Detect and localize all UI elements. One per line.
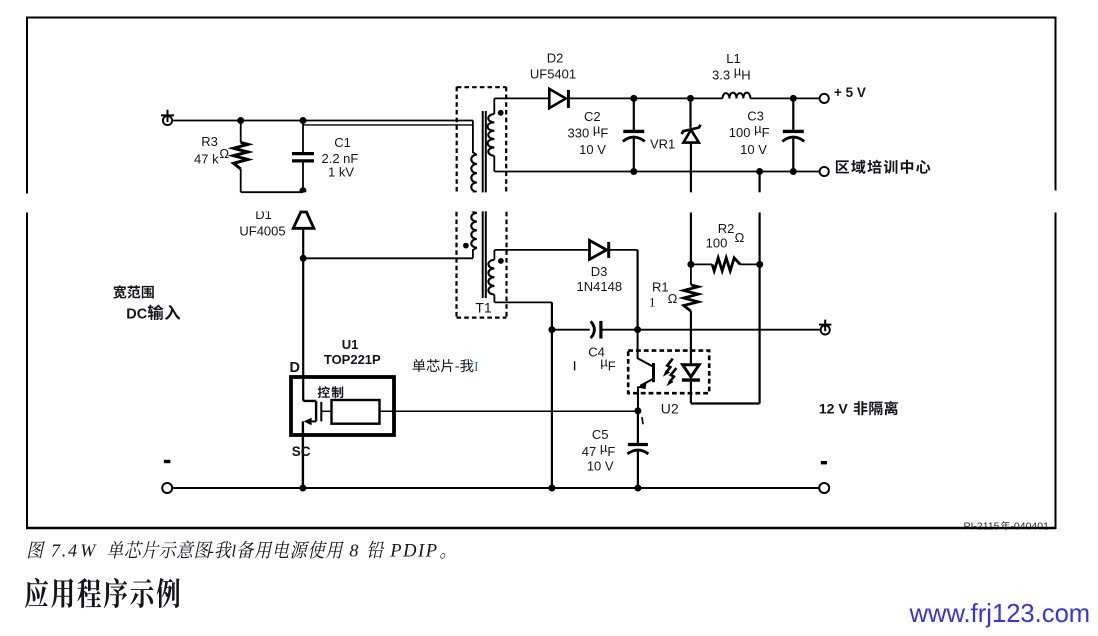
- inductor L1: [723, 93, 751, 99]
- transformer core upper: [483, 111, 486, 192]
- svg-text:1 kV: 1 kV: [328, 165, 354, 180]
- wire return down to seam: [758, 172, 760, 193]
- svg-text:47 µF: 47 µF: [582, 440, 616, 459]
- svg-text:8: 8: [349, 540, 358, 560]
- svg-text:10 V: 10 V: [579, 142, 606, 157]
- bias 12V phase dot: [498, 258, 504, 264]
- svg-text:100: 100: [706, 235, 728, 250]
- svg-text:www.frj123.com: www.frj123.com: [909, 600, 1091, 628]
- svg-text:Ω: Ω: [735, 230, 745, 245]
- svg-text:+ 5 V: + 5 V: [834, 85, 866, 100]
- svg-text:12 V: 12 V: [819, 401, 848, 417]
- control block rectangle: [332, 400, 380, 424]
- wire top rail input: [172, 120, 473, 122]
- node C1 top: [300, 117, 307, 124]
- minus mark left: [164, 460, 171, 463]
- svg-text:3.3 µH: 3.3 µH: [712, 64, 751, 83]
- node C2 bottom: [630, 168, 637, 175]
- node C3 top: [790, 95, 797, 102]
- svg-text:10 V: 10 V: [740, 142, 767, 157]
- svg-text:R3: R3: [201, 134, 218, 149]
- diode D3: [590, 240, 607, 259]
- transformer core lower: [483, 211, 486, 298]
- wire secondary to D2: [494, 97, 549, 99]
- wire LED cathode link: [691, 402, 760, 404]
- diode D1 (top clipped at seam): [293, 212, 314, 228]
- svg-text:47 k: 47 k: [194, 152, 219, 167]
- wire C4 rail left: [552, 329, 590, 331]
- wire 12V winding bottom: [495, 301, 552, 303]
- svg-text:330 µF: 330 µF: [568, 122, 609, 141]
- node C1 bottom (cut by seam): [300, 187, 307, 194]
- wire source column: [302, 421, 304, 488]
- svg-text:1: 1: [649, 295, 656, 310]
- heading 应用程序示例: [25, 578, 180, 608]
- label 单芯片-我I: [413, 359, 474, 372]
- node source-rail: [299, 485, 306, 492]
- opto emitter wire: [640, 379, 652, 385]
- svg-text:DC: DC: [126, 306, 147, 322]
- node control-emitter: [634, 407, 641, 414]
- svg-text:TOP221P: TOP221P: [324, 352, 381, 367]
- zener VR1: [689, 98, 691, 127]
- label D1 (half cut): [255, 207, 272, 222]
- border frame left (split at image seam): [26, 17, 28, 530]
- transistor Q MOSFET channel: [303, 401, 316, 422]
- svg-text:T1: T1: [475, 300, 492, 316]
- op-amp U1 TOPSwitch box: [291, 377, 394, 435]
- svg-text:U1: U1: [342, 337, 359, 352]
- capacitor C2: [633, 98, 635, 129]
- bias 12V winding: [493, 250, 495, 260]
- wire top rail double-line artifact: [303, 124, 473, 126]
- svg-text:l: l: [231, 541, 236, 560]
- wire bottom rail: [172, 487, 819, 489]
- border frame bottom: [26, 527, 1056, 530]
- caption figure text: [28, 541, 45, 558]
- svg-text:Ω: Ω: [668, 291, 678, 306]
- resistor R1: [690, 264, 692, 284]
- svg-text:100 µF: 100 µF: [729, 121, 770, 140]
- svg-text:D: D: [290, 360, 300, 376]
- svg-text:-: -: [208, 541, 214, 560]
- capacitor C5: [637, 411, 639, 443]
- value C4 mark: [574, 361, 576, 370]
- wire 5V return rail: [494, 171, 819, 173]
- primary winding lower (cut at seam): [471, 204, 477, 248]
- wire clamp rail: [241, 191, 304, 193]
- node VR1 top: [687, 95, 694, 102]
- node drain junction: [300, 255, 307, 262]
- svg-text:D2: D2: [547, 51, 564, 66]
- svg-text:W: W: [80, 540, 97, 560]
- capacitor C1: [302, 121, 304, 153]
- input + terminal: [163, 116, 172, 125]
- label 宽范围: [113, 285, 154, 299]
- node R2 right: [756, 261, 763, 268]
- secondary 5V winding: [493, 98, 495, 114]
- label RTN 区域培训中心: [836, 160, 931, 174]
- svg-text:VR1: VR1: [650, 136, 675, 151]
- node C3 bottom: [790, 168, 797, 175]
- diode D2: [549, 89, 566, 108]
- transformer T1 dashed box upper (cut at seam): [457, 87, 507, 192]
- capacitor C3: [792, 98, 794, 129]
- svg-text:R2: R2: [718, 221, 735, 236]
- wire return column lower: [758, 213, 760, 404]
- transformer T1 dashed box lower (cut at seam): [457, 212, 507, 318]
- wire drain to transformer: [303, 257, 473, 259]
- svg-text:1N4148: 1N4148: [577, 279, 623, 294]
- resistor R2: [691, 263, 712, 265]
- minus mark right: [821, 461, 827, 464]
- opto LED: [683, 365, 700, 377]
- transistor gate bar: [320, 402, 322, 422]
- terminal +5V: [820, 94, 829, 103]
- capacitor C4: [591, 321, 595, 338]
- optocoupler U2 dashed box: [628, 351, 709, 394]
- node D3 bottom: [634, 326, 641, 333]
- wire D1-drain column: [302, 228, 304, 401]
- svg-text:R1: R1: [652, 280, 669, 295]
- wire control pin line: [380, 410, 638, 412]
- wire primary top lead: [473, 121, 477, 155]
- node C5-rail: [634, 485, 641, 492]
- node return-down: [756, 168, 763, 175]
- terminal bottom left: [162, 483, 172, 493]
- wire 5V rail: [568, 97, 819, 99]
- wire D3 to C4 node: [609, 249, 638, 251]
- opto light arrow 2: [669, 368, 676, 383]
- svg-text:Ω: Ω: [219, 146, 229, 161]
- node R3 top: [237, 117, 244, 124]
- svg-text:UF5401: UF5401: [530, 66, 576, 81]
- node C4 left: [548, 326, 555, 333]
- svg-text:C1: C1: [334, 135, 351, 150]
- svg-text:PDIP: PDIP: [389, 541, 439, 561]
- wire 12V winding to D3: [495, 249, 590, 251]
- wire gate link: [321, 410, 330, 412]
- node C2 top: [630, 95, 637, 102]
- border frame top: [26, 17, 1056, 19]
- opto collector wire: [638, 330, 653, 367]
- svg-text:D3: D3: [591, 264, 608, 279]
- wire VR1 column lower: [690, 213, 692, 265]
- label control 控制: [318, 386, 344, 398]
- svg-text:SC: SC: [292, 444, 311, 459]
- artifact mark under node: [642, 417, 643, 424]
- node R2 left: [687, 261, 694, 268]
- secondary 5V phase dot: [498, 110, 504, 116]
- svg-text:U2: U2: [661, 401, 679, 417]
- border frame right (split at image seam): [1055, 17, 1057, 530]
- resistor R3: [240, 121, 242, 143]
- terminal bottom right: [819, 483, 829, 493]
- primary phase dot: [463, 243, 469, 249]
- transistor source arrow wire: [306, 420, 316, 422]
- node winding-rail: [548, 485, 555, 492]
- wire C4 rail right: [601, 329, 820, 331]
- opto light arrow 1: [666, 359, 673, 374]
- terminal RTN: [820, 167, 829, 176]
- svg-text:7.4: 7.4: [51, 540, 79, 560]
- terminal 12V+: [821, 325, 830, 334]
- svg-text:PI-2115: PI-2115: [964, 521, 1000, 533]
- svg-text:-040401: -040401: [1010, 521, 1049, 533]
- svg-text:10 V: 10 V: [587, 459, 614, 474]
- svg-text:I: I: [474, 360, 479, 375]
- svg-text:UF4005: UF4005: [239, 223, 285, 238]
- opto transistor bar: [652, 363, 655, 382]
- primary winding upper (cut at seam): [471, 155, 477, 202]
